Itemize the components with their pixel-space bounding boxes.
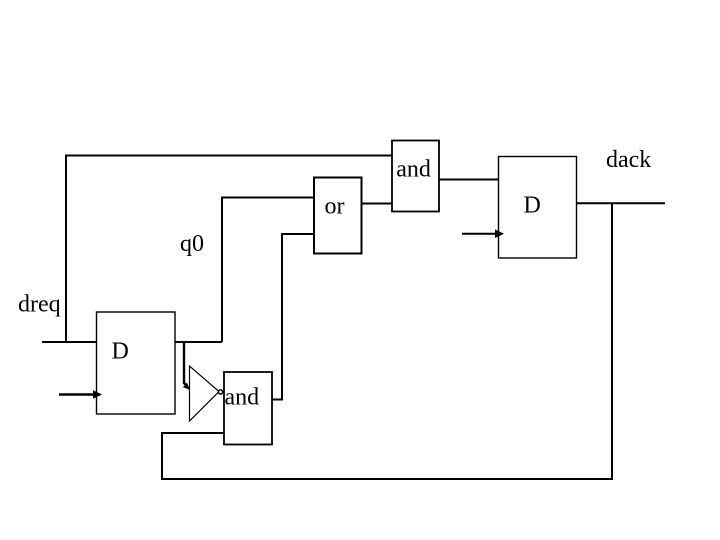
svg-text:and: and bbox=[396, 157, 431, 183]
clock arrow into U1 bbox=[59, 393, 95, 396]
or gate G2 bbox=[314, 178, 362, 254]
wire U2 Q output (dack net) bbox=[577, 202, 665, 204]
inverter bubble bbox=[218, 390, 222, 394]
and gate G1 (top) bbox=[392, 141, 439, 212]
inverter triangle bbox=[190, 366, 220, 421]
and gate G3 (bottom) bbox=[224, 372, 272, 445]
svg-text:and: and bbox=[225, 385, 260, 411]
svg-text:q0: q0 bbox=[180, 231, 204, 257]
svg-text:D: D bbox=[112, 339, 129, 365]
D flip-flop U2 bbox=[499, 157, 577, 259]
wire feedback top: and G1 input from dreq node bbox=[66, 156, 392, 342]
wire feedback bottom: dack node down and around to G3 lower input bbox=[162, 203, 612, 479]
svg-text:or: or bbox=[325, 194, 345, 220]
svg-text:D: D bbox=[524, 193, 541, 219]
svg-text:dack: dack bbox=[606, 147, 651, 173]
wire branch from q0 down to inverter input (with arrowhead) bbox=[184, 341, 187, 386]
svg-text:dreq: dreq bbox=[18, 292, 61, 318]
D flip-flop U1 bbox=[97, 312, 176, 414]
wire G2 output to and G1 input 2 bbox=[362, 203, 392, 205]
wire U1 Q output to node q0 bbox=[175, 341, 222, 343]
wire net q0 up to or G2 input 1 bbox=[222, 198, 313, 343]
wire G3 output up to or G2 input 2 bbox=[272, 234, 313, 400]
wire dreq input stub bbox=[42, 341, 96, 343]
wire G1 output to D flip-flop U2 bbox=[439, 179, 498, 181]
clock arrow into U2 bbox=[462, 233, 496, 235]
